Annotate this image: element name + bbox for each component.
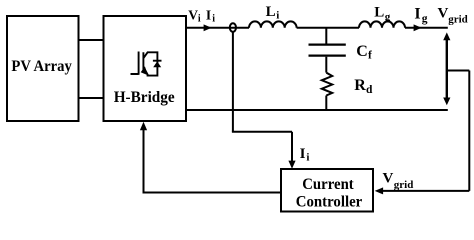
wire Rd bottom lead [325,96,327,111]
svg-text:g: g [422,13,428,25]
wire Vgrid feedback vertical [468,71,470,191]
label Ig [414,6,427,25]
wire bottom return rail [186,109,448,111]
svg-text:L: L [266,4,276,20]
inductor Li [249,21,297,27]
inductor Lg [359,21,405,27]
resistor Rd [322,73,332,96]
svg-text:V: V [188,7,198,22]
label Vgrid bottom [383,170,414,191]
node measurement circle [230,23,236,32]
svg-text:g: g [385,11,391,23]
svg-text:i: i [212,14,215,25]
PV Array block [7,16,79,121]
svg-text:H-Bridge: H-Bridge [114,89,175,106]
arrow Ig current direction [414,24,422,31]
svg-text:I: I [206,7,211,22]
svg-text:V: V [438,6,449,22]
svg-text:i: i [198,14,201,25]
svg-text:grid: grid [448,14,468,26]
svg-text:C: C [356,43,368,60]
label Vgrid top [438,6,468,26]
label Li [266,4,280,21]
wire controller output to H-Bridge [140,122,281,193]
wire Cf to Rd [325,57,327,73]
label Lg [374,5,391,23]
IGBT symbol inside H-Bridge [131,52,162,76]
wire Vgrid tap to feedback [447,70,470,72]
svg-text:V: V [383,170,394,186]
svg-text:i: i [276,9,279,21]
svg-text:grid: grid [394,179,414,191]
wire node drop (Ii sense) [232,32,234,132]
svg-text:Controller: Controller [296,194,363,211]
svg-text:L: L [374,5,384,21]
svg-text:f: f [368,50,372,62]
svg-text:Current: Current [302,176,354,193]
svg-text:d: d [366,84,373,96]
wire PV to H-Bridge upper [79,39,104,41]
wire Vgrid feedback into controller [375,187,470,194]
label Rd [354,77,373,96]
wire Ii drop into controller [288,132,295,169]
wire Ii horizontal run [232,131,292,133]
wire Li to Lg [297,27,359,29]
wire PV to H-Bridge lower [79,97,104,99]
H-Bridge block U1 [104,16,187,121]
arrow Vi current direction [204,24,212,31]
svg-text:I: I [414,6,420,23]
Current Controller block [281,169,373,212]
wire Cf branch top lead [325,28,327,44]
wire H-Bridge output (Vi node) [186,27,249,29]
wire Lg to grid [405,27,448,29]
svg-text:I: I [300,146,306,162]
label Cf [356,43,372,62]
label Ii [300,146,310,163]
svg-text:i: i [306,151,309,163]
svg-text:PV Array: PV Array [11,58,72,75]
label Vi Ii [188,7,215,24]
svg-text:R: R [354,77,366,94]
Vgrid voltage double arrow [443,32,450,105]
capacitor Cf [309,45,346,56]
